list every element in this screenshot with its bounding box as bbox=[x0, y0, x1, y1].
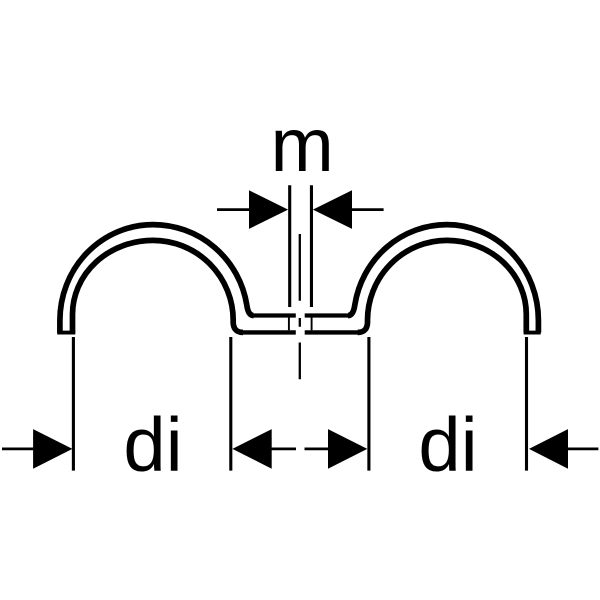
extension line di mid right bbox=[367, 337, 370, 471]
dimension di tail mid left bbox=[271, 448, 296, 451]
extension line di far right bbox=[525, 337, 528, 471]
clip 1 end cap bbox=[57, 331, 75, 335]
dimension line m left tail bbox=[217, 208, 250, 211]
clip 2 outer line (right omega) bbox=[348, 225, 538, 333]
clip 1 top bar (to centre gap) bbox=[253, 313, 296, 317]
extension line di mid left bbox=[229, 337, 232, 471]
clip 2 bottom bar (to centre gap) bbox=[305, 330, 359, 334]
arrowhead m right bbox=[313, 190, 352, 229]
extension line m right bbox=[310, 185, 313, 307]
clip 2 strip end vertical cap bbox=[311, 318, 313, 331]
clip 1 inner line (left omega) bbox=[73, 240, 244, 332]
svg-text:di: di bbox=[123, 403, 182, 488]
clip 1 outer line (left omega) bbox=[60, 225, 254, 333]
arrowhead di far right bbox=[529, 429, 568, 469]
dimension di tail far left bbox=[2, 448, 34, 451]
clip 1 strip end vertical cap bbox=[288, 318, 290, 331]
dimension di tail far right bbox=[566, 448, 598, 451]
extension line di far left bbox=[72, 337, 75, 471]
svg-text:di: di bbox=[418, 403, 477, 488]
clip 2 inner line (right omega) bbox=[358, 240, 527, 332]
arrowhead di mid left bbox=[232, 429, 271, 469]
clip 1 bottom bar (to centre gap) bbox=[242, 330, 296, 334]
extension line m left bbox=[288, 185, 291, 307]
arrowhead di mid right bbox=[328, 429, 367, 469]
arrowhead m left bbox=[249, 190, 288, 229]
dimension line m right tail bbox=[352, 208, 384, 211]
svg-text:m: m bbox=[271, 103, 334, 188]
clip 2 end cap bbox=[524, 331, 541, 335]
centreline axis (dash-dot) bbox=[299, 234, 301, 379]
clip 2 top bar (to centre gap) bbox=[305, 313, 350, 317]
arrowhead di far left bbox=[33, 429, 72, 469]
dimension di tail mid right bbox=[305, 448, 330, 451]
